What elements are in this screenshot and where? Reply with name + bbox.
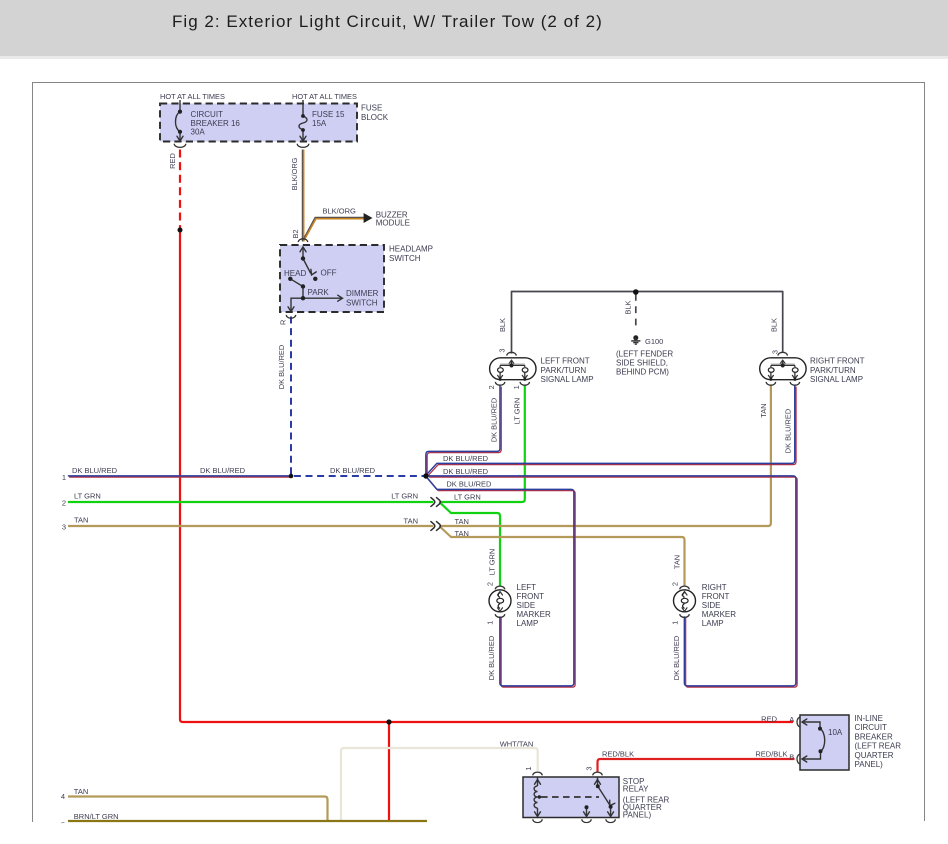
svg-text:2: 2 <box>62 498 66 507</box>
svg-text:HOT AT ALL TIMES: HOT AT ALL TIMES <box>160 92 225 101</box>
svg-text:SWITCH: SWITCH <box>346 298 378 307</box>
svg-text:DK BLU/RED: DK BLU/RED <box>783 409 792 453</box>
svg-text:LT GRN: LT GRN <box>454 493 481 502</box>
svg-text:DK BLU/RED: DK BLU/RED <box>443 467 489 476</box>
svg-text:BRN/LT GRN: BRN/LT GRN <box>74 812 119 821</box>
svg-text:RED/BLK: RED/BLK <box>602 750 634 759</box>
svg-text:(LEFT FENDER: (LEFT FENDER <box>616 349 673 358</box>
svg-text:PARK/TURN: PARK/TURN <box>810 366 856 375</box>
svg-text:A: A <box>789 715 794 724</box>
svg-text:FRONT: FRONT <box>517 592 545 601</box>
svg-text:TAN: TAN <box>455 517 469 526</box>
svg-text:R: R <box>279 320 288 325</box>
svg-text:3: 3 <box>771 350 780 354</box>
svg-text:TAN: TAN <box>74 516 88 525</box>
svg-text:BLK: BLK <box>624 300 633 314</box>
svg-text:PANEL): PANEL) <box>855 760 884 769</box>
svg-text:LT GRN: LT GRN <box>391 492 418 501</box>
svg-text:FUSE 15: FUSE 15 <box>312 110 345 119</box>
svg-text:DK BLU/RED: DK BLU/RED <box>277 345 286 389</box>
svg-text:30A: 30A <box>191 128 206 137</box>
svg-text:OFF: OFF <box>321 269 337 278</box>
svg-text:DK BLU/RED: DK BLU/RED <box>443 454 489 463</box>
svg-text:SIDE: SIDE <box>702 601 721 610</box>
svg-text:LEFT FRONT: LEFT FRONT <box>541 356 590 365</box>
svg-text:LT GRN: LT GRN <box>487 549 496 575</box>
svg-text:HOT AT ALL TIMES: HOT AT ALL TIMES <box>292 92 357 101</box>
svg-text:Fig 2: Exterior Light Circuit,: Fig 2: Exterior Light Circuit, W/ Traile… <box>172 12 603 31</box>
svg-text:BLOCK: BLOCK <box>361 113 389 122</box>
svg-text:TAN: TAN <box>74 787 88 796</box>
svg-text:BREAKER: BREAKER <box>855 732 893 741</box>
svg-text:SIGNAL LAMP: SIGNAL LAMP <box>541 375 594 384</box>
svg-text:2: 2 <box>486 582 495 586</box>
svg-text:BEHIND PCM): BEHIND PCM) <box>616 368 669 377</box>
svg-text:RIGHT: RIGHT <box>702 583 727 592</box>
svg-text:BREAKER 16: BREAKER 16 <box>191 119 241 128</box>
svg-text:TAN: TAN <box>404 517 418 526</box>
svg-text:RED: RED <box>168 153 177 169</box>
svg-text:LEFT: LEFT <box>517 583 537 592</box>
svg-text:3: 3 <box>62 522 66 531</box>
svg-text:3: 3 <box>498 348 507 352</box>
svg-text:G100: G100 <box>645 337 663 346</box>
svg-text:1: 1 <box>486 621 495 625</box>
svg-text:DK BLU/RED: DK BLU/RED <box>487 636 496 680</box>
svg-text:MARKER: MARKER <box>702 610 736 619</box>
svg-text:RED: RED <box>761 715 777 724</box>
svg-text:BLK: BLK <box>498 318 507 332</box>
svg-text:QUARTER: QUARTER <box>855 751 894 760</box>
svg-text:SWITCH: SWITCH <box>389 254 421 263</box>
svg-text:TAN: TAN <box>672 555 681 569</box>
svg-text:DIMMER: DIMMER <box>346 289 379 298</box>
svg-text:RED/BLK: RED/BLK <box>755 750 787 759</box>
svg-text:TAN: TAN <box>759 403 768 417</box>
svg-text:LT GRN: LT GRN <box>513 398 522 424</box>
svg-text:DK BLU/RED: DK BLU/RED <box>672 636 681 680</box>
svg-text:CIRCUIT: CIRCUIT <box>191 110 224 119</box>
svg-text:WHT/TAN: WHT/TAN <box>500 740 534 749</box>
svg-text:DK BLU/RED: DK BLU/RED <box>490 398 499 442</box>
svg-text:SIDE: SIDE <box>517 601 536 610</box>
svg-text:DK BLU/RED: DK BLU/RED <box>72 466 118 475</box>
svg-text:(LEFT REAR: (LEFT REAR <box>855 742 902 751</box>
svg-text:B2: B2 <box>291 229 300 238</box>
svg-text:HEAD: HEAD <box>284 269 306 278</box>
svg-text:DK BLU/RED: DK BLU/RED <box>446 480 492 489</box>
svg-text:MODULE: MODULE <box>376 219 410 228</box>
svg-text:DK BLU/RED: DK BLU/RED <box>330 466 376 475</box>
svg-text:FUSE: FUSE <box>361 104 382 113</box>
svg-text:2: 2 <box>487 385 496 389</box>
svg-text:B: B <box>789 752 794 761</box>
svg-text:2: 2 <box>671 582 680 586</box>
svg-text:PARK: PARK <box>308 288 330 297</box>
svg-text:3: 3 <box>585 766 594 770</box>
svg-text:LT GRN: LT GRN <box>74 492 101 501</box>
svg-text:BLK/ORG: BLK/ORG <box>290 157 299 190</box>
svg-text:PARK/TURN: PARK/TURN <box>541 366 587 375</box>
svg-text:BLK/ORG: BLK/ORG <box>323 207 357 216</box>
svg-text:RIGHT FRONT: RIGHT FRONT <box>810 356 865 365</box>
svg-text:1: 1 <box>62 473 66 482</box>
svg-text:TAN: TAN <box>455 529 469 538</box>
svg-text:1: 1 <box>512 385 521 389</box>
svg-text:SIGNAL LAMP: SIGNAL LAMP <box>810 375 863 384</box>
svg-text:HEADLAMP: HEADLAMP <box>389 245 433 254</box>
svg-text:SIDE SHIELD,: SIDE SHIELD, <box>616 359 668 368</box>
svg-text:LAMP: LAMP <box>702 619 724 628</box>
svg-text:FRONT: FRONT <box>702 592 730 601</box>
svg-text:4: 4 <box>61 792 65 801</box>
svg-text:DK BLU/RED: DK BLU/RED <box>200 466 246 475</box>
svg-text:BLK: BLK <box>770 318 779 332</box>
svg-text:PANEL): PANEL) <box>623 811 652 820</box>
svg-text:10A: 10A <box>828 728 843 737</box>
svg-text:1: 1 <box>671 621 680 625</box>
svg-text:IN-LINE: IN-LINE <box>855 714 883 723</box>
svg-text:LAMP: LAMP <box>517 619 539 628</box>
svg-text:1: 1 <box>524 766 533 770</box>
svg-text:CIRCUIT: CIRCUIT <box>855 723 888 732</box>
svg-text:RELAY: RELAY <box>623 785 649 794</box>
svg-text:MARKER: MARKER <box>517 610 551 619</box>
svg-text:15A: 15A <box>312 119 327 128</box>
